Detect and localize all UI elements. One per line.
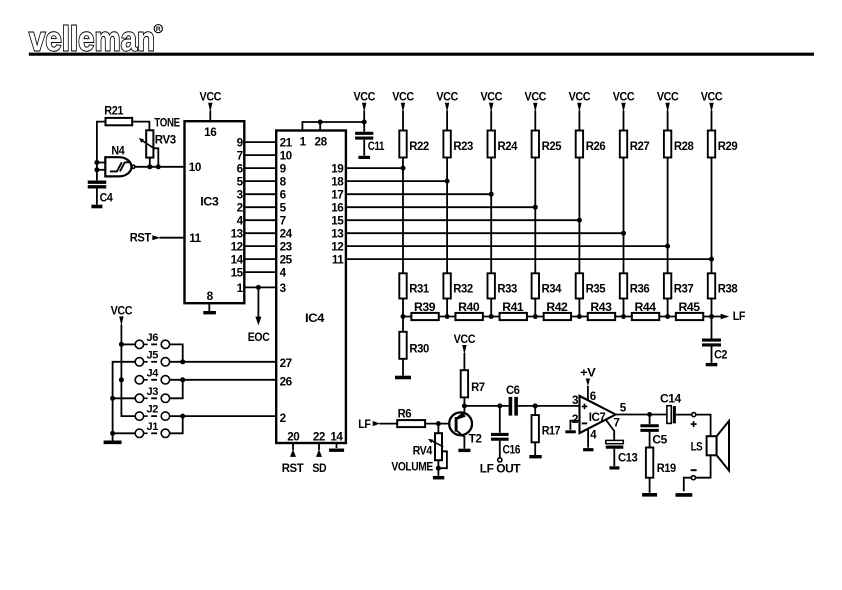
resistor R37 (664, 273, 693, 298)
node R17 junction (533, 403, 538, 408)
svg-text:VOLUME: VOLUME (391, 460, 433, 473)
resistor R36 (620, 273, 650, 298)
minus sign LS (691, 469, 697, 471)
svg-text:EOC: EOC (248, 331, 271, 344)
svg-text:7: 7 (237, 150, 243, 163)
velleman logo (29, 21, 162, 59)
svg-text:VCC: VCC (525, 91, 547, 104)
svg-text:IC3: IC3 (200, 195, 219, 208)
svg-text:R29: R29 (718, 140, 738, 153)
node N4 input junctions (94, 160, 99, 172)
wire IC3-IC4 row 15-4 (244, 271, 276, 273)
wire RST to IC3 pin11 (160, 237, 185, 239)
node J4-J3 junction (180, 377, 185, 382)
svg-text:3: 3 (280, 282, 287, 295)
wire C2 to ground (711, 347, 713, 363)
resistor R38 (708, 273, 738, 298)
plus input sign (582, 404, 588, 410)
wire IC3-IC4 row 6-9 (244, 167, 276, 169)
svg-text:10: 10 (280, 150, 293, 163)
svg-text:R22: R22 (409, 140, 429, 153)
svg-text:R35: R35 (586, 283, 606, 296)
svg-text:12: 12 (231, 241, 244, 254)
wire R33 to ladder (490, 299, 492, 317)
wire R7 to T2 (463, 397, 465, 410)
plus sign LS (691, 421, 697, 427)
node C16 junction (497, 403, 502, 408)
resistor R30 (399, 332, 430, 359)
wire R21 left to bus (97, 122, 106, 181)
wire IC3-IC4 row 12-23 (244, 245, 276, 247)
node ladder junction 3 (489, 314, 494, 319)
capacitor C11 (355, 133, 385, 153)
ground R19 (642, 493, 657, 497)
arrow RST (152, 235, 160, 240)
resistor R33 (488, 273, 518, 298)
resistor R35 (576, 273, 606, 298)
resistor R21 (104, 105, 132, 126)
wire RV3 wiper (153, 148, 158, 167)
resistor R44 (632, 301, 659, 320)
wire VCC to C11 (363, 111, 365, 132)
ground C2 (706, 363, 718, 366)
wire bus pin 18 to column (346, 180, 447, 182)
svg-text:LF: LF (358, 418, 370, 431)
capacitor C13 (606, 440, 638, 464)
wire ladder to C2 (711, 317, 713, 339)
svg-text:12: 12 (331, 241, 344, 254)
svg-text:15: 15 (331, 215, 344, 228)
schmitt gate N4 (105, 157, 135, 176)
resistor R43 (588, 301, 615, 320)
wire amp rail left (464, 405, 508, 407)
resistor R7 (461, 370, 485, 397)
wire VCC to R28 (667, 111, 669, 131)
ground IC3 (203, 311, 216, 314)
svg-text:R42: R42 (546, 301, 568, 314)
svg-text:11: 11 (332, 254, 344, 267)
svg-text:6: 6 (590, 390, 597, 403)
wire R6 to T2 base (425, 423, 456, 425)
svg-text:R40: R40 (458, 301, 480, 314)
svg-text:VCC: VCC (701, 91, 723, 104)
wire bus pin 12 to column (346, 245, 668, 247)
svg-text:8: 8 (280, 176, 287, 189)
node ladder junction 4 (533, 314, 538, 319)
wire IC4 pin1-28 bridge (302, 122, 364, 131)
svg-text:1: 1 (237, 282, 244, 295)
node J2-J1 junction (180, 414, 185, 419)
wire R21 right to RV3 top (132, 122, 149, 131)
svg-text:21: 21 (280, 137, 293, 150)
ground LS (676, 493, 693, 497)
svg-text:IC4: IC4 (305, 312, 325, 325)
resistor R28 (664, 131, 694, 158)
resistor R6 (397, 408, 425, 427)
wire J5 row to IC4 pin27 (170, 361, 277, 363)
svg-text:IC7: IC7 (589, 411, 606, 424)
wire J6 right to J5 row (170, 344, 183, 361)
wire bus B (113, 362, 136, 441)
node T2 collector junction (462, 403, 467, 408)
wire R35 to ladder (578, 299, 580, 317)
wire J3 right to J4 row (170, 380, 183, 399)
wire R28 to R37 (667, 158, 669, 274)
svg-text:VCC: VCC (392, 91, 414, 104)
svg-text:R: R (156, 26, 161, 33)
resistor R41 (500, 301, 527, 320)
wire C14 to terminal (676, 414, 692, 416)
jumper J4 (135, 367, 169, 384)
ground R17 (529, 455, 541, 458)
resistor R34 (532, 273, 562, 298)
arrow RST pin20 (290, 449, 296, 457)
wire R37 to ladder (667, 299, 669, 317)
svg-text:SD: SD (312, 462, 326, 475)
wire RV4 wiper (438, 451, 447, 468)
svg-text:28: 28 (315, 135, 328, 148)
svg-text:VCC: VCC (613, 91, 635, 104)
arrow SD pin22 (316, 449, 322, 457)
svg-text:C5: C5 (652, 434, 667, 447)
svg-text:13: 13 (231, 228, 244, 241)
resistor R23 (443, 131, 473, 158)
svg-text:R19: R19 (657, 462, 677, 475)
wire VCC to IC3 (209, 111, 211, 122)
node J3 junction (110, 396, 115, 401)
svg-text:18: 18 (331, 176, 344, 189)
wire J4 row to IC4 pin26 (170, 379, 277, 381)
wire C13 to ground (613, 449, 615, 466)
svg-text:4: 4 (237, 215, 244, 228)
svg-text:N4: N4 (111, 144, 125, 157)
jumper J3 (135, 386, 169, 403)
svg-text:R43: R43 (590, 301, 612, 314)
wire VCC to R7 (463, 353, 465, 370)
svg-text:LS: LS (691, 440, 703, 453)
svg-text:R32: R32 (453, 283, 473, 296)
svg-text:LF: LF (733, 310, 745, 323)
svg-text:R39: R39 (414, 301, 436, 314)
op IC3 box (185, 121, 245, 303)
resistor R25 (532, 131, 562, 158)
wire J6 left stub (121, 343, 135, 345)
wire IC3-IC4 row 4-7 (244, 219, 276, 221)
node J4 junction (119, 377, 124, 382)
wire VCC to R23 (446, 111, 448, 131)
wire IC3-IC4 row 9-21 (244, 141, 276, 143)
svg-text:R7: R7 (471, 381, 485, 394)
wire RV4 to ground (437, 460, 439, 476)
wire VCC to R22 (402, 111, 404, 131)
wire RV3 bottom to node (149, 158, 151, 167)
svg-text:8: 8 (207, 290, 214, 303)
wire R27 to R36 (623, 158, 625, 274)
wire R36 to ladder (623, 299, 625, 317)
svg-text:R30: R30 (409, 342, 429, 355)
wire bus pin 16 to column (346, 206, 535, 208)
node RV4 junction (436, 421, 441, 426)
wire ladder to R30 (402, 317, 404, 332)
svg-text:14: 14 (330, 430, 343, 443)
wire bus pin 15 to column (346, 219, 580, 221)
wire C6 to R17 (518, 405, 535, 407)
node RV4 bottom junction (436, 466, 441, 471)
wire C5 to R19 (649, 432, 651, 448)
ground jumper bus (104, 440, 122, 444)
svg-text:R34: R34 (542, 283, 562, 296)
jumper J2 (135, 404, 169, 421)
resistor R31 (399, 273, 429, 298)
node J6 junction (119, 342, 124, 347)
wire ladder (403, 316, 721, 318)
wire J1 left stub (113, 432, 136, 434)
svg-text:VCC: VCC (657, 91, 679, 104)
node bus 18 junction (445, 179, 450, 184)
svg-text:5: 5 (620, 402, 627, 415)
wire R26 to R35 (578, 158, 580, 274)
wire LF to R6 (379, 423, 397, 425)
jumper J5 (135, 349, 169, 366)
wire R22 to R31 (402, 158, 404, 274)
resistor R19 (646, 448, 677, 478)
wire N4 output to IC3 pin10 (135, 166, 185, 168)
wire pin4 to ground (587, 429, 589, 448)
terminal LS plus (692, 413, 696, 417)
wire IC3-IC4 row 2-5 (244, 206, 276, 208)
wire J2 row to IC4 pin2 (170, 415, 277, 417)
wire J1 right to J2 row (170, 416, 183, 433)
wire VCC to R24 (490, 111, 492, 131)
svg-text:9: 9 (280, 163, 287, 176)
ground IC4 pin14 (329, 449, 344, 452)
node ladder junction 6 (621, 314, 626, 319)
node J5-J6 junction (180, 359, 185, 364)
op-amp IC7 (580, 396, 616, 433)
svg-text:VCC: VCC (436, 91, 458, 104)
svg-text:J4: J4 (147, 367, 159, 379)
capacitor C6 (506, 384, 520, 416)
svg-text:R26: R26 (586, 140, 606, 153)
node bus 16 junction (533, 205, 538, 210)
node bus 15 junction (577, 218, 582, 223)
svg-text:C14: C14 (660, 393, 682, 406)
arrow EOC (255, 317, 261, 326)
svg-text:R33: R33 (497, 283, 517, 296)
wire +V to pin6 (587, 386, 589, 401)
wire IC3-IC4 row 14-25 (244, 258, 276, 260)
svg-text:13: 13 (331, 228, 344, 241)
svg-text:16: 16 (204, 126, 217, 139)
wire R25 to R34 (534, 158, 536, 274)
header rule (29, 53, 814, 56)
ground R30 (395, 376, 411, 380)
node C5 junction (647, 412, 652, 417)
wire bus pin 17 to column (346, 193, 491, 195)
svg-text:C13: C13 (618, 451, 638, 464)
wire LS bottom (696, 455, 711, 477)
svg-text:R17: R17 (542, 424, 560, 437)
wire R23 to R32 (446, 158, 448, 274)
svg-text:R37: R37 (674, 283, 694, 296)
wire IC3-IC4 row 3-6 (244, 193, 276, 195)
wire R38 to ladder (711, 299, 713, 317)
node RV3-N4 junction (147, 164, 161, 169)
node ladder junction 7 (665, 314, 670, 319)
arrow LF out (721, 314, 730, 319)
svg-text:VCC: VCC (454, 333, 476, 346)
svg-text:10: 10 (189, 161, 202, 174)
wire VCC to R26 (578, 111, 580, 131)
svg-text:4: 4 (590, 428, 597, 441)
resistor R26 (576, 131, 606, 158)
wire R32 to ladder (446, 299, 448, 317)
arrow +V (586, 379, 590, 387)
svg-text:4: 4 (280, 267, 287, 280)
wire IC4 pin22 (318, 443, 320, 450)
ground C4 (91, 205, 102, 209)
svg-text:2: 2 (572, 413, 579, 426)
node bus 11 junction (709, 257, 714, 262)
resistor R40 (455, 301, 482, 320)
resistor R27 (620, 131, 650, 158)
ground RV4 (433, 476, 444, 480)
svg-text:2: 2 (280, 412, 287, 425)
svg-text:R31: R31 (409, 283, 429, 296)
node bus 13 junction (621, 231, 626, 236)
jumper J6 (135, 332, 169, 349)
resistor R32 (443, 273, 473, 298)
svg-text:J5: J5 (147, 349, 159, 361)
wire J3 left stub (113, 397, 136, 399)
ground T2 (458, 449, 470, 452)
svg-text:17: 17 (331, 189, 343, 202)
ground C13 (609, 466, 619, 469)
svg-text:3: 3 (572, 394, 579, 407)
node J1 junction (110, 431, 115, 436)
svg-text:19: 19 (331, 163, 344, 176)
potentiometer RV4 (413, 424, 444, 461)
resistor R22 (399, 131, 429, 158)
wire EOC (257, 287, 259, 317)
wire bus pin 13 to column (346, 232, 624, 234)
wire VCC to R25 (534, 111, 536, 131)
svg-text:VCC: VCC (353, 91, 375, 104)
svg-text:R23: R23 (453, 140, 473, 153)
node ladder junction 8 (709, 314, 714, 319)
svg-text:7: 7 (613, 417, 619, 430)
wire LS minus to ground (684, 478, 692, 492)
capacitor C4 (88, 182, 114, 204)
wire IC3 pin8 (208, 303, 210, 311)
node EOC junction (256, 285, 261, 290)
svg-text:C6: C6 (506, 384, 520, 397)
capacitor C16 (491, 406, 521, 457)
ground pin4 (583, 448, 593, 451)
wire IC3-IC4 row 13-24 (244, 232, 276, 234)
capacitor C5 (640, 415, 667, 447)
wire VCC to R27 (623, 111, 625, 131)
transistor T2 (449, 412, 482, 446)
svg-text:24: 24 (280, 228, 293, 241)
wire IC4 pin14 (336, 443, 338, 448)
svg-text:R27: R27 (630, 140, 650, 153)
ground C11 (358, 156, 370, 159)
svg-text:6: 6 (237, 163, 244, 176)
wire N4 input stubs (97, 163, 105, 170)
wire IC3-IC4 row 5-8 (244, 180, 276, 182)
wire R30 to ground (402, 359, 404, 376)
svg-text:J6: J6 (147, 332, 159, 344)
svg-text:15: 15 (231, 267, 244, 280)
terminal LF OUT (498, 458, 502, 462)
svg-text:RV3: RV3 (155, 133, 177, 146)
svg-text:C2: C2 (714, 348, 728, 361)
resistor R42 (544, 301, 571, 320)
svg-text:+V: +V (580, 367, 596, 380)
wire VCC to R29 (711, 111, 713, 131)
wire pin2 to ground (570, 421, 579, 430)
svg-text:RST: RST (282, 462, 305, 475)
wire T2 emitter up (463, 406, 465, 412)
svg-text:7: 7 (280, 215, 286, 228)
node C11 junction (362, 120, 367, 125)
svg-text:22: 22 (313, 430, 326, 443)
minus input sign (582, 422, 588, 424)
wire R29 to R38 (711, 158, 713, 274)
wire bus pin 19 to column (346, 167, 403, 169)
wire R19 to ground (649, 478, 651, 493)
wire R24 to R33 (490, 158, 492, 274)
svg-text:23: 23 (280, 241, 293, 254)
svg-text:R45: R45 (679, 301, 701, 314)
svg-text:R41: R41 (502, 301, 524, 314)
capacitor C2 (702, 340, 728, 361)
svg-text:RST: RST (130, 232, 152, 245)
capacitor C14 (660, 393, 682, 424)
node ladder junction 2 (445, 314, 450, 319)
svg-text:27: 27 (280, 357, 292, 370)
terminal LS minus (691, 476, 695, 480)
svg-text:26: 26 (280, 375, 293, 388)
wire T2 collector down (463, 437, 465, 449)
wire R17 to ground (534, 442, 536, 455)
svg-text:R24: R24 (498, 140, 518, 153)
wire C4 to ground (96, 188, 98, 204)
wire pin7 to C13 (606, 420, 614, 441)
resistor R17 (532, 406, 561, 442)
node bus 17 junction (489, 192, 494, 197)
svg-text:R28: R28 (674, 140, 694, 153)
svg-text:VCC: VCC (480, 91, 502, 104)
svg-text:RV4: RV4 (413, 445, 433, 458)
node bus 19 junction (401, 166, 406, 171)
svg-text:9: 9 (237, 137, 244, 150)
svg-text:R44: R44 (635, 301, 657, 314)
svg-text:R38: R38 (718, 283, 738, 296)
svg-text:VCC: VCC (111, 304, 133, 317)
wire C11 to ground (363, 140, 365, 156)
svg-text:TONE: TONE (154, 116, 180, 129)
svg-text:14: 14 (231, 254, 244, 267)
wire R34 to ladder (534, 299, 536, 317)
wire terminal to LS (696, 415, 711, 437)
wire opamp output (616, 414, 667, 416)
svg-text:R25: R25 (542, 140, 562, 153)
node bus 12 junction (665, 244, 670, 249)
svg-text:R6: R6 (398, 408, 412, 421)
wire VCC bus A (121, 324, 135, 416)
